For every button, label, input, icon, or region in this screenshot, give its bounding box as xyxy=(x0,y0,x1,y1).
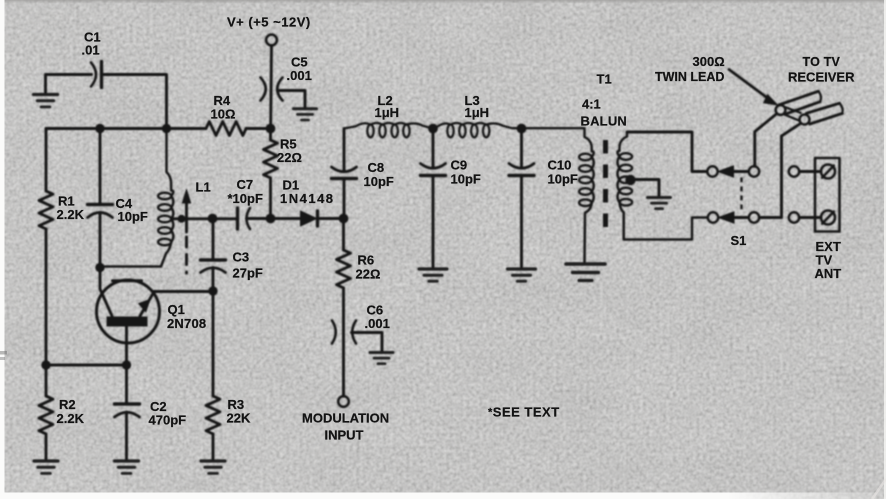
svg-text:TWIN LEAD: TWIN LEAD xyxy=(655,70,724,84)
svg-text:1μH: 1μH xyxy=(465,105,490,120)
svg-text:10pF: 10pF xyxy=(118,209,148,224)
svg-text:V+ (+5 ~12V): V+ (+5 ~12V) xyxy=(227,15,311,30)
svg-text:2.2K: 2.2K xyxy=(57,411,85,426)
svg-text:.01: .01 xyxy=(82,43,100,58)
svg-text:C9: C9 xyxy=(451,158,468,173)
svg-text:*SEE TEXT: *SEE TEXT xyxy=(488,405,560,420)
svg-text:C8: C8 xyxy=(368,160,385,175)
svg-text:R6: R6 xyxy=(358,253,375,268)
svg-text:BALUN: BALUN xyxy=(581,114,628,129)
svg-text:MODULATION: MODULATION xyxy=(302,411,389,426)
svg-text:2N708: 2N708 xyxy=(167,316,206,331)
svg-text:22Ω: 22Ω xyxy=(277,150,302,165)
svg-text:1μH: 1μH xyxy=(375,105,400,120)
svg-text:S1: S1 xyxy=(731,233,747,248)
svg-text:.001: .001 xyxy=(287,68,312,83)
svg-text:27pF: 27pF xyxy=(233,266,263,281)
svg-text:22Ω: 22Ω xyxy=(356,267,381,282)
svg-text:C7: C7 xyxy=(237,177,254,192)
svg-text:1N4148: 1N4148 xyxy=(280,191,335,206)
svg-text:INPUT: INPUT xyxy=(325,428,364,443)
svg-text:300Ω: 300Ω xyxy=(693,54,725,69)
svg-text:L1: L1 xyxy=(196,180,211,195)
svg-text:10Ω: 10Ω xyxy=(211,107,236,122)
svg-text:C10: C10 xyxy=(548,158,572,173)
svg-text:10pF: 10pF xyxy=(548,172,578,187)
svg-text:TO TV: TO TV xyxy=(803,55,841,69)
svg-text:RECEIVER: RECEIVER xyxy=(788,70,855,85)
svg-text:22K: 22K xyxy=(227,411,251,426)
svg-text:Q1: Q1 xyxy=(168,302,185,317)
svg-text:R2: R2 xyxy=(59,397,76,412)
svg-text:10pF: 10pF xyxy=(451,172,481,187)
svg-text:4:1: 4:1 xyxy=(582,97,601,112)
svg-text:470pF: 470pF xyxy=(149,413,187,428)
svg-text:2.2K: 2.2K xyxy=(57,207,85,222)
svg-text:.001: .001 xyxy=(365,316,390,331)
svg-text:C3: C3 xyxy=(233,250,250,265)
svg-text:10pF: 10pF xyxy=(364,174,394,189)
svg-text:T1: T1 xyxy=(597,72,612,87)
svg-text:*10pF: *10pF xyxy=(228,191,263,206)
svg-text:ANT: ANT xyxy=(815,266,842,281)
